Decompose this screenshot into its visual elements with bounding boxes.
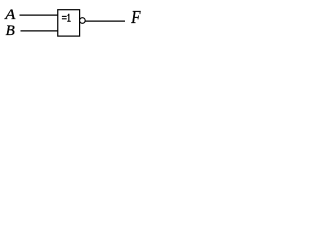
svg-text:F: F (130, 7, 141, 28)
svg-text:B: B (6, 23, 15, 39)
svg-text:A: A (4, 6, 16, 22)
